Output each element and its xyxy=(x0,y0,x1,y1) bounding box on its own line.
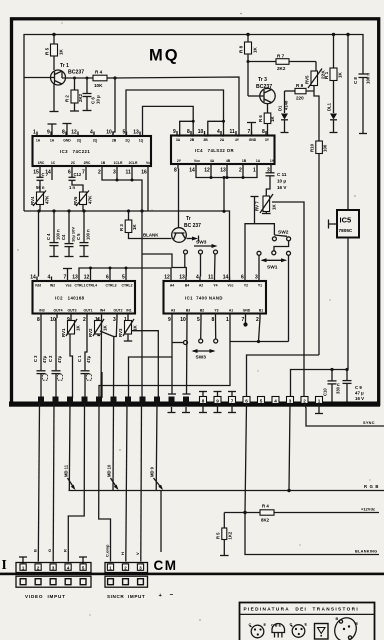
svg-text:SW3: SW3 xyxy=(196,355,207,361)
svg-text:Vdd: Vdd xyxy=(35,284,41,288)
svg-text:16: 16 xyxy=(141,170,147,176)
svg-text:D1: D1 xyxy=(278,105,283,111)
svg-text:Y1: Y1 xyxy=(258,284,262,288)
capacitor C5 100n xyxy=(76,211,91,257)
svg-text:4: 4 xyxy=(48,275,51,281)
svg-text:RV2: RV2 xyxy=(88,328,93,337)
svg-text:C10: C10 xyxy=(323,388,328,396)
svg-text:GND: GND xyxy=(243,309,251,313)
svg-text:C12: C12 xyxy=(74,172,82,177)
pcb edge thick line xyxy=(0,573,384,576)
svg-text:100 n: 100 n xyxy=(366,72,371,84)
svg-text:2: 2 xyxy=(83,317,86,323)
resistor R4 8K2 xyxy=(260,504,274,523)
wire stub below rgb rail xyxy=(160,491,162,553)
svg-text:10: 10 xyxy=(50,317,56,323)
pinout TO18 case 2 xyxy=(290,623,308,638)
bus tabs left filled xyxy=(38,397,189,404)
svg-text:RV5: RV5 xyxy=(305,75,310,84)
svg-text:7: 7 xyxy=(64,275,67,281)
pinout TO3 case xyxy=(331,614,360,640)
svg-text:GND: GND xyxy=(63,139,71,143)
trimmer RV5 22K xyxy=(305,62,327,92)
svg-text:1B: 1B xyxy=(101,161,106,165)
svg-text:MD 9: MD 9 xyxy=(150,466,155,477)
svg-text:10K: 10K xyxy=(94,83,103,88)
svg-text:C 4: C 4 xyxy=(46,233,51,240)
wire SW3 contact to IC1 Y4 xyxy=(214,254,217,277)
svg-text:V: V xyxy=(135,552,140,555)
switch SW1 xyxy=(257,251,291,271)
wire sync composite to pin 1 xyxy=(99,404,111,562)
wire G to video pin 3 xyxy=(52,404,55,562)
svg-text:2CLR: 2CLR xyxy=(129,161,138,165)
bus tabs right numbered xyxy=(200,397,323,404)
svg-text:SW2: SW2 xyxy=(278,230,289,236)
svg-text:220: 220 xyxy=(296,96,304,101)
svg-text:A1: A1 xyxy=(229,309,233,313)
capacitor C4b 10u 10V electrolytic xyxy=(61,211,76,257)
main schematic frame border xyxy=(12,19,379,404)
node: R5 top junction xyxy=(52,33,55,36)
svg-text:1: 1 xyxy=(318,399,321,404)
capacitor C8 100n xyxy=(353,70,371,134)
capacitor C11 10u 16V on IC4 pin 3 xyxy=(266,169,288,197)
top supply rail wire xyxy=(24,35,363,212)
svg-text:1K: 1K xyxy=(76,324,81,331)
resistor R9 220 xyxy=(285,83,320,141)
svg-text:4148: 4148 xyxy=(284,100,289,110)
svg-text:9: 9 xyxy=(47,130,50,136)
svg-text:2B: 2B xyxy=(112,139,117,143)
svg-text:B2: B2 xyxy=(200,309,204,313)
svg-text:330 n: 330 n xyxy=(336,383,341,394)
svg-text:8: 8 xyxy=(174,168,177,174)
transistor pinout box PIEDINATURA DEI TRANSISTORI xyxy=(240,603,375,640)
svg-text:R 6: R 6 xyxy=(258,115,263,122)
svg-text:2B: 2B xyxy=(190,138,195,142)
svg-text:3B: 3B xyxy=(203,138,208,142)
svg-text:R G B: R G B xyxy=(364,484,379,489)
wire IC3 1Q to IC4 2B xyxy=(140,106,193,136)
svg-text:CTRL1: CTRL1 xyxy=(75,284,86,288)
IC1 7400 NAND xyxy=(164,275,267,324)
svg-text:2A: 2A xyxy=(220,138,225,142)
resistor R10 100 xyxy=(310,141,328,355)
svg-text:10: 10 xyxy=(198,129,204,135)
wire IC3 pin 7 stub xyxy=(85,171,87,181)
wire IC1 Y2 up to SW2 xyxy=(245,224,274,277)
wire rail down and across to sync bus tab xyxy=(99,342,230,399)
svg-text:4Y: 4Y xyxy=(235,138,240,142)
svg-text:2: 2 xyxy=(256,317,259,323)
capacitor C3 47u electrolytic xyxy=(33,318,48,398)
svg-text:IC1 7400 NAND: IC1 7400 NAND xyxy=(185,295,223,300)
svg-text:4: 4 xyxy=(90,130,93,136)
svg-text:7: 7 xyxy=(248,129,251,135)
wire R4 line to IC4 pin 4Y xyxy=(115,77,239,136)
svg-text:5: 5 xyxy=(122,275,125,281)
wire gap vertical to bus tab xyxy=(141,211,143,398)
svg-text:1K: 1K xyxy=(338,71,343,78)
wire B to video pin 2 xyxy=(38,404,39,562)
wire sync line from tab to edge xyxy=(305,404,384,427)
connector video lower row xyxy=(16,576,91,587)
svg-text:3A: 3A xyxy=(176,138,181,142)
svg-text:R 8: R 8 xyxy=(239,45,244,53)
wire SW3 contact to IC1 A2 xyxy=(200,254,202,277)
wire SW3 lower common branch to bus tab xyxy=(129,343,184,399)
svg-text:MQ: MQ xyxy=(149,47,180,65)
trimmer RV6 47K xyxy=(72,180,93,211)
wire IC1 Y3 to SW3 contact xyxy=(215,318,217,339)
ground stubs around numbered tabs xyxy=(199,392,323,414)
svg-text:14: 14 xyxy=(189,168,195,174)
wire H to sincr pin 2 xyxy=(126,404,127,562)
svg-text:8: 8 xyxy=(62,130,65,136)
svg-text:SW3: SW3 xyxy=(196,240,207,246)
label MD11 with leader xyxy=(64,464,76,490)
wire IC1 A3 to tab with end bars xyxy=(168,318,177,413)
svg-text:Tr 1: Tr 1 xyxy=(60,63,69,69)
svg-text:IN1: IN1 xyxy=(126,309,131,313)
svg-text:6: 6 xyxy=(106,275,109,281)
wire branch to IC1 B4 xyxy=(142,254,186,277)
wire IC5 feed from rail xyxy=(347,35,349,211)
svg-text:1K2: 1K2 xyxy=(228,531,233,539)
svg-text:2RC: 2RC xyxy=(84,161,91,165)
svg-text:IC3 74C221: IC3 74C221 xyxy=(60,149,90,154)
svg-text:SW1: SW1 xyxy=(267,265,278,271)
svg-text:CTRL2: CTRL2 xyxy=(122,284,133,288)
svg-text:4A: 4A xyxy=(210,159,215,163)
wire IC4 2Y to Tr2 collector xyxy=(178,169,180,228)
svg-text:OUT3: OUT3 xyxy=(67,309,76,313)
svg-text:C 3: C 3 xyxy=(33,355,38,362)
LED DL1 xyxy=(327,102,338,132)
ground stub above video pin 5 xyxy=(79,557,87,564)
svg-text:Tr 3: Tr 3 xyxy=(258,77,267,83)
svg-text:C 11: C 11 xyxy=(277,172,287,177)
wire IC1 B3 to tab with end bars xyxy=(182,318,191,413)
capacitor C6 10u electrolytic xyxy=(83,77,101,111)
wire V to sincr pin 3 xyxy=(140,404,143,562)
resistor R5 1K xyxy=(45,35,64,71)
svg-text:DL1: DL1 xyxy=(327,102,332,111)
svg-text:1: 1 xyxy=(226,317,229,323)
svg-text:100 n: 100 n xyxy=(56,229,61,240)
svg-text:Vcc: Vcc xyxy=(146,161,152,165)
wire rgb feed down xyxy=(289,404,290,491)
svg-text:BC237: BC237 xyxy=(68,70,84,76)
svg-text:12: 12 xyxy=(164,275,170,281)
capacitor C12 1n on IC3 pin 6 xyxy=(69,171,82,191)
wire rail to IC2 Vdd xyxy=(38,211,40,277)
svg-text:R 7: R 7 xyxy=(277,54,285,59)
wire CTRL bus over IC2 to IC1 A4 xyxy=(79,267,171,277)
svg-text:16 V: 16 V xyxy=(355,396,364,401)
svg-text:Vss: Vss xyxy=(65,284,71,288)
svg-text:6: 6 xyxy=(241,275,244,281)
svg-text:1K: 1K xyxy=(132,224,137,230)
svg-text:13: 13 xyxy=(220,168,226,174)
svg-text:5: 5 xyxy=(197,317,200,323)
pinout TO92 case xyxy=(271,623,285,637)
svg-text:R 1: R 1 xyxy=(324,71,329,79)
svg-text:C 5: C 5 xyxy=(76,233,81,240)
filter rail above C10 C9 xyxy=(291,368,349,398)
svg-text:47µ: 47µ xyxy=(42,355,47,363)
wire IC3 pin 16 stub down xyxy=(147,171,149,212)
svg-text:16 V: 16 V xyxy=(277,185,287,190)
svg-text:1 n: 1 n xyxy=(69,185,75,190)
svg-text:11: 11 xyxy=(230,129,236,135)
svg-text:47K: 47K xyxy=(45,195,50,204)
svg-text:A4: A4 xyxy=(170,284,174,288)
svg-text:R 5: R 5 xyxy=(216,532,221,539)
transistor Tr3 BC237 xyxy=(248,77,275,104)
svg-text:4: 4 xyxy=(274,399,277,404)
svg-text:2K2: 2K2 xyxy=(78,93,83,102)
label MD9 with leader xyxy=(150,466,164,490)
svg-text:C: C xyxy=(290,623,293,627)
connector sincr input upper row xyxy=(105,563,148,573)
wire rail under IC3 pins 2 3 11 xyxy=(102,171,142,212)
svg-text:C 8: C 8 xyxy=(353,77,358,84)
svg-text:=12Vdc: =12Vdc xyxy=(361,507,376,512)
svg-text:2: 2 xyxy=(98,170,101,176)
svg-text:8: 8 xyxy=(202,399,205,404)
svg-text:3: 3 xyxy=(289,399,292,404)
svg-text:B: B xyxy=(32,549,37,552)
ground stub above IC3 pin 8 xyxy=(63,124,72,137)
svg-text:CM: CM xyxy=(154,558,178,573)
svg-text:8: 8 xyxy=(262,129,265,135)
capacitor C2 47u electrolytic xyxy=(48,318,63,398)
svg-text:Vcc: Vcc xyxy=(194,159,200,163)
capacitor C4 100n xyxy=(46,211,61,257)
svg-text:Y4: Y4 xyxy=(213,284,217,288)
svg-text:1K: 1K xyxy=(103,324,108,331)
svg-text:9: 9 xyxy=(216,399,219,404)
svg-text:CTRL4: CTRL4 xyxy=(86,284,97,288)
svg-text:47µ: 47µ xyxy=(57,355,62,363)
svg-text:OUT1: OUT1 xyxy=(83,309,92,313)
wire MD11 to rgb rail xyxy=(68,404,71,491)
capacitor C9 47u 16V electrolytic xyxy=(343,370,365,402)
svg-text:100: 100 xyxy=(323,144,328,152)
svg-text:10: 10 xyxy=(180,317,186,323)
svg-text:47K: 47K xyxy=(88,195,93,204)
svg-text:BC237: BC237 xyxy=(256,84,272,90)
rgb distribution rail xyxy=(69,484,384,492)
svg-text:BLANKING: BLANKING xyxy=(355,550,377,554)
svg-text:−: − xyxy=(170,592,174,599)
svg-text:RV4: RV4 xyxy=(30,196,35,205)
svg-text:6: 6 xyxy=(245,399,248,404)
svg-text:R: R xyxy=(62,549,67,552)
diode D1 4148 xyxy=(278,91,289,133)
wire R to video pin 4 xyxy=(68,404,84,562)
svg-text:C B E: C B E xyxy=(271,624,282,628)
wire Tr1 emitter to ground stub xyxy=(50,84,59,112)
svg-text:13: 13 xyxy=(133,130,139,136)
svg-text:R 5: R 5 xyxy=(45,47,50,55)
svg-text:2Q: 2Q xyxy=(93,139,98,143)
svg-text:RV6: RV6 xyxy=(73,196,78,205)
resistor R4 10K xyxy=(62,70,115,89)
blanking line xyxy=(245,513,379,555)
svg-text:2K2: 2K2 xyxy=(277,66,286,71)
svg-text:OUT4: OUT4 xyxy=(53,309,62,313)
wire IC3 2Q to IC4 2A xyxy=(126,90,224,136)
svg-text:13: 13 xyxy=(72,275,78,281)
svg-text:12: 12 xyxy=(71,130,77,136)
svg-text:100 n: 100 n xyxy=(86,229,91,240)
svg-text:MD 11: MD 11 xyxy=(64,464,69,477)
svg-text:C 2: C 2 xyxy=(48,355,53,362)
svg-text:C 7: C 7 xyxy=(42,172,49,177)
svg-text:7805C: 7805C xyxy=(339,228,353,233)
svg-text:56 n: 56 n xyxy=(36,185,45,190)
svg-text:OUT2: OUT2 xyxy=(113,309,122,313)
svg-text:IC2 140168: IC2 140168 xyxy=(55,295,85,300)
svg-text:VIDEO IMPUT: VIDEO IMPUT xyxy=(25,594,66,599)
svg-text:8: 8 xyxy=(212,317,215,323)
svg-text:R10: R10 xyxy=(310,143,315,152)
switch SW3 lower contacts xyxy=(184,339,218,361)
svg-text:IC4 74LS32 OR: IC4 74LS32 OR xyxy=(195,148,234,153)
pinout TO18 case 1 xyxy=(249,623,267,638)
svg-text:10 µ: 10 µ xyxy=(96,95,101,104)
svg-text:4: 4 xyxy=(196,275,199,281)
svg-text:10 µ: 10 µ xyxy=(277,179,286,184)
svg-text:10: 10 xyxy=(106,130,112,136)
transistor Tr2 BC237 xyxy=(172,216,201,242)
svg-text:14: 14 xyxy=(30,275,36,281)
svg-text:BC 237: BC 237 xyxy=(184,223,201,229)
ground stub above IC4 pin 7 GND xyxy=(247,123,256,136)
bottom thick bus bar of frame xyxy=(9,402,380,407)
svg-text:R 4: R 4 xyxy=(262,504,269,509)
svg-text:2: 2 xyxy=(239,168,242,174)
transistor Tr1 BC237 xyxy=(24,63,84,85)
trimmer RV2 1K xyxy=(88,318,108,337)
ground stub feeding SW2 line xyxy=(251,197,259,224)
svg-text:2Y: 2Y xyxy=(177,159,182,163)
svg-text:PIEDINATURA DEI TRANSISTORI: PIEDINATURA DEI TRANSISTORI xyxy=(244,607,360,612)
svg-text:1Q: 1Q xyxy=(139,139,144,143)
svg-text:2: 2 xyxy=(303,399,306,404)
wire MD10 to rgb rail xyxy=(112,404,115,491)
wire RV2 wiper diagonal xyxy=(100,331,114,337)
ground stub above IC2 pin 7 Vss xyxy=(63,269,72,277)
svg-text:47µ: 47µ xyxy=(86,355,91,363)
switch SW2 xyxy=(272,230,290,241)
svg-text:Y3: Y3 xyxy=(214,309,218,313)
svg-text:1: 1 xyxy=(253,168,256,174)
trimmer RV4 47K xyxy=(30,191,50,212)
svg-text:1A: 1A xyxy=(256,159,261,163)
resistor R1 1K xyxy=(324,35,343,114)
svg-text:1K: 1K xyxy=(272,204,277,210)
svg-text:5: 5 xyxy=(260,399,263,404)
svg-text:14: 14 xyxy=(223,275,229,281)
svg-text:7: 7 xyxy=(242,317,245,323)
svg-text:IN3: IN3 xyxy=(39,309,44,313)
svg-text:A3: A3 xyxy=(171,309,175,313)
12V dc rail xyxy=(224,507,379,515)
svg-text:8: 8 xyxy=(187,129,190,135)
svg-text:GND: GND xyxy=(249,138,257,142)
connector sincr lower row xyxy=(105,576,148,587)
svg-text:1A: 1A xyxy=(50,139,55,143)
svg-text:2Q: 2Q xyxy=(77,139,82,143)
capacitor C7 56n on IC3 pin 15 xyxy=(36,171,49,193)
svg-text:1: 1 xyxy=(33,130,36,136)
svg-text:10µ 10V: 10µ 10V xyxy=(71,227,76,242)
wire IC2 IN4 to bus tab xyxy=(100,318,103,398)
svg-text:1K: 1K xyxy=(133,324,138,331)
regulator IC5 7805C xyxy=(329,210,360,370)
resistor R5 1K2 xyxy=(216,513,233,556)
svg-text:C.omp: C.omp xyxy=(105,544,110,557)
wire IC1 B1 to rail xyxy=(259,318,261,342)
svg-text:3: 3 xyxy=(255,275,258,281)
svg-text:G: G xyxy=(47,549,52,552)
wire IC4 3A tap xyxy=(177,120,195,136)
wire rail under IC4 pins Vcc 4A 4B 1B 1A xyxy=(196,169,257,212)
resistor R8 1K xyxy=(239,35,258,97)
svg-text:B: B xyxy=(336,617,339,621)
label MD10 with leader xyxy=(107,464,119,490)
wire stub to bus tab xyxy=(101,372,103,398)
node: R8 top junction xyxy=(246,33,249,36)
pinout flat pack case xyxy=(315,624,329,640)
capacitor C10 330n xyxy=(323,370,341,402)
connector CM video input upper row xyxy=(16,563,91,573)
svg-text:IN4: IN4 xyxy=(100,309,105,313)
trimmer RV3 1K xyxy=(118,318,138,341)
svg-text:1K: 1K xyxy=(253,46,258,53)
wire RV7 wiper to bus tab xyxy=(272,202,304,398)
svg-text:B1: B1 xyxy=(259,309,263,313)
svg-text:RV1: RV1 xyxy=(61,328,66,337)
svg-text:IC5: IC5 xyxy=(340,216,352,225)
svg-text:7: 7 xyxy=(82,170,85,176)
wire SW3 contact stub xyxy=(184,254,186,267)
svg-text:2C: 2C xyxy=(71,161,76,165)
ground stub above IC3 pin 9 xyxy=(48,124,57,136)
svg-text:1C: 1C xyxy=(51,161,56,165)
svg-text:C 9: C 9 xyxy=(355,385,362,390)
svg-text:H: H xyxy=(120,552,125,555)
svg-text:Y2: Y2 xyxy=(244,284,248,288)
svg-text:B3: B3 xyxy=(186,309,190,313)
svg-text:3: 3 xyxy=(113,170,116,176)
svg-text:RV 7: RV 7 xyxy=(255,201,260,211)
svg-text:11: 11 xyxy=(126,170,132,176)
svg-text:IN2: IN2 xyxy=(50,284,55,288)
wire IC4 3B tap xyxy=(205,120,226,136)
svg-text:2Q: 2Q xyxy=(125,139,130,143)
svg-text:5: 5 xyxy=(123,130,126,136)
svg-text:3Y: 3Y xyxy=(265,138,270,142)
svg-text:12: 12 xyxy=(204,168,210,174)
node: IC5 feed junction xyxy=(346,33,349,36)
trimmer RV7 1K xyxy=(255,194,277,214)
IC3 74C221 xyxy=(33,130,153,176)
